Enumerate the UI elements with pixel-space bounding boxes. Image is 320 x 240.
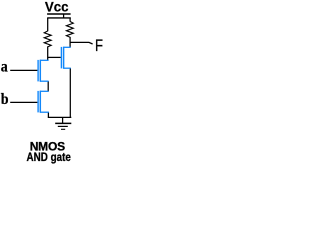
svg-text:AND gate: AND gate	[27, 151, 71, 164]
svg-text:b: b	[1, 91, 9, 108]
svg-text:Vcc: Vcc	[45, 0, 69, 14]
svg-text:F: F	[95, 38, 103, 56]
svg-text:a: a	[1, 59, 8, 76]
